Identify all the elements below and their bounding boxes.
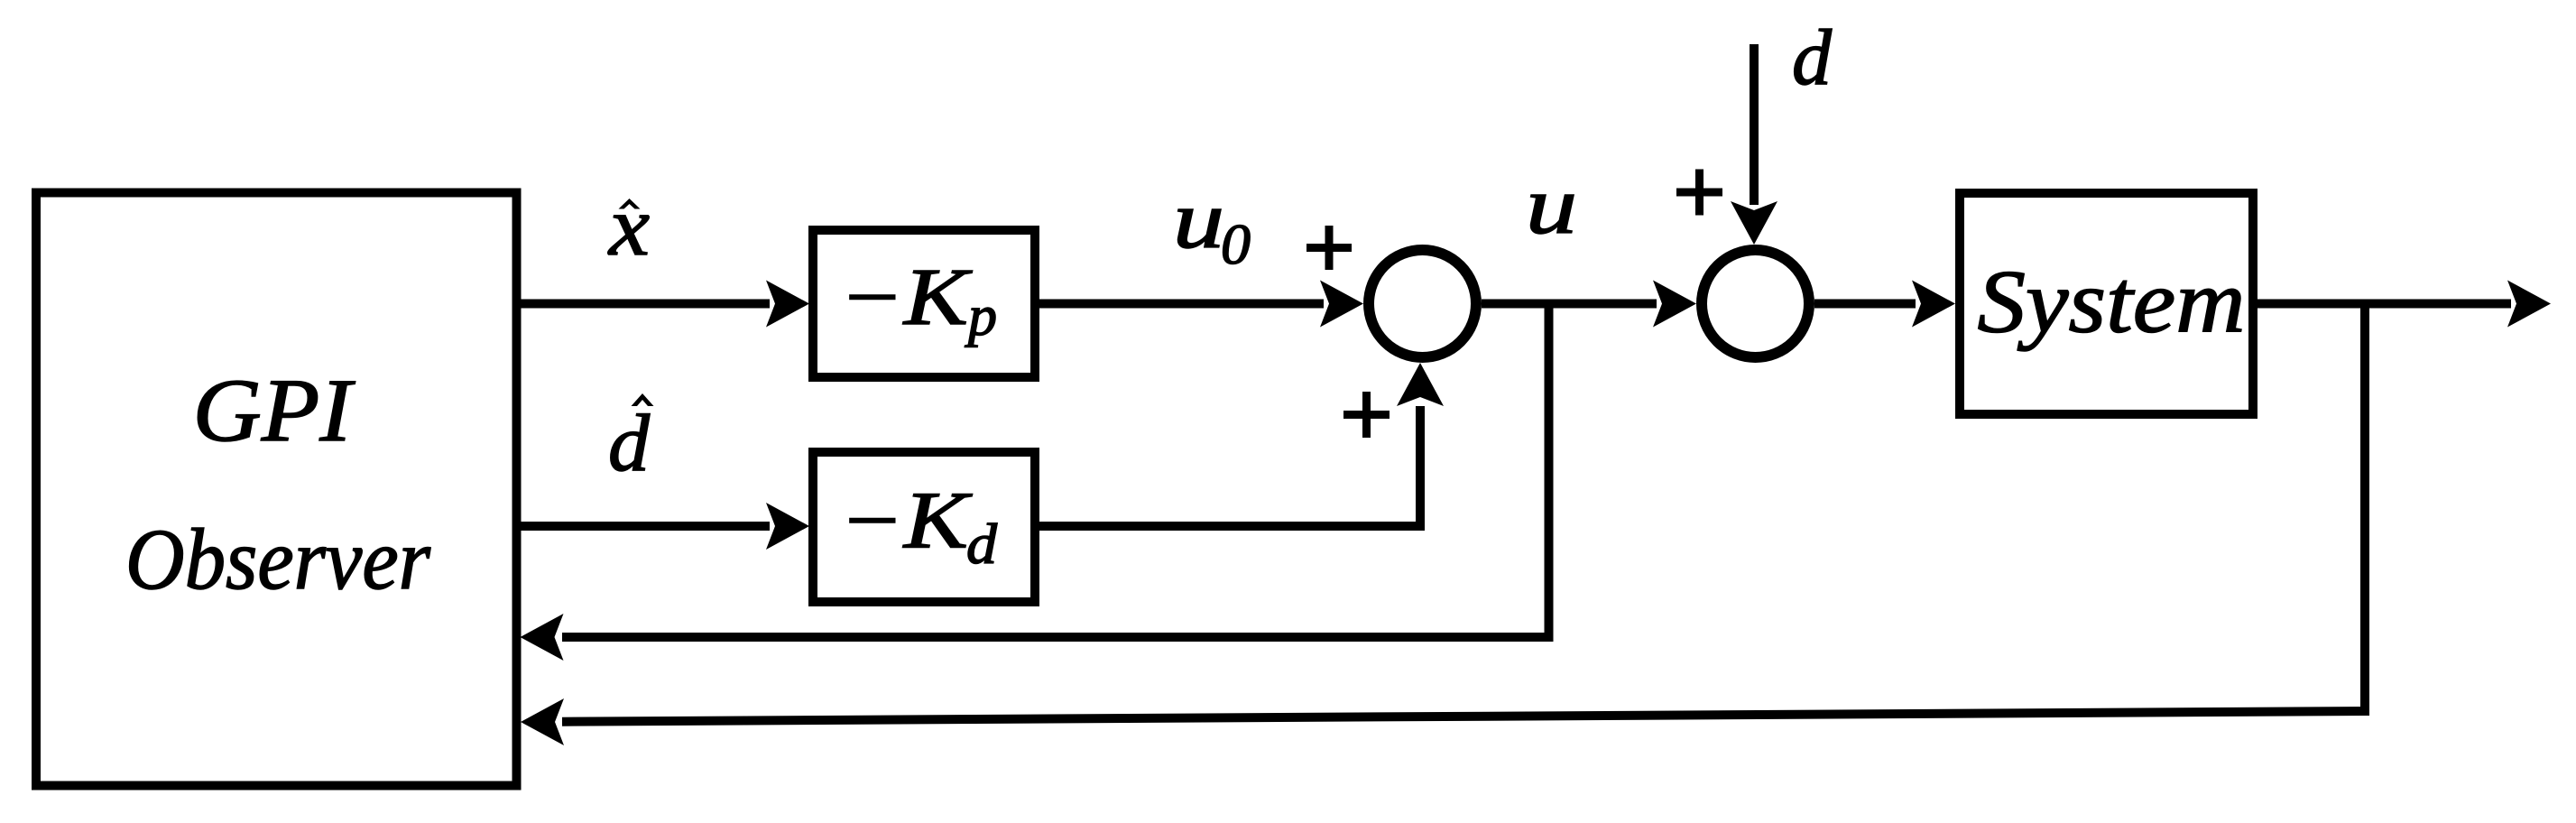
svg-text:p: p [965, 283, 997, 347]
wire feedback y to GPI (slightly slanted) [562, 711, 2369, 722]
svg-text:−K: −K [839, 476, 973, 566]
plus sign at summer 2 left input [1676, 170, 1722, 216]
svg-text:d: d [1792, 14, 1833, 102]
arrowhead d into summer 2 [1731, 201, 1777, 245]
wire xhat: GPI to -Kp [516, 300, 770, 309]
wire d disturbance input [1750, 44, 1759, 205]
summer 2 circle [1702, 250, 1809, 357]
svg-text:x: x [607, 180, 650, 273]
hat of dhat [632, 393, 654, 406]
block -Kp [813, 230, 1035, 377]
GPI Observer block [36, 193, 517, 786]
plus sign at summer 1 left input [1306, 226, 1352, 270]
svg-text:−K: −K [839, 253, 973, 342]
wire u0: -Kp to summer 1 [1035, 300, 1324, 309]
svg-text:u: u [1173, 174, 1224, 265]
arrowhead into summer 1 [1320, 281, 1363, 328]
hat of xhat [619, 199, 641, 209]
svg-text:d: d [966, 512, 998, 576]
node u tap: vertical drop for feedback [1545, 300, 1554, 643]
arrowhead into System [1912, 281, 1955, 328]
wire dhat: GPI to -Kd [516, 522, 770, 531]
wire summer 2 to System [1814, 300, 1916, 309]
block System [1960, 193, 2253, 414]
svg-text:Observer: Observer [125, 511, 431, 607]
svg-text:GPI: GPI [193, 360, 356, 460]
svg-text:System: System [1978, 252, 2246, 352]
block -Kd [813, 452, 1035, 602]
arrowhead feedback y into GPI [521, 698, 564, 745]
svg-text:0: 0 [1221, 212, 1251, 276]
wire -Kd output to summer 1 bottom [1035, 406, 1420, 526]
wire feedback u to GPI [562, 633, 1554, 642]
arrowhead into summer 2 [1653, 281, 1696, 328]
plus sign at summer 1 bottom input [1343, 392, 1390, 438]
wire System output [2253, 300, 2511, 309]
arrowhead feedback u into GPI [521, 614, 564, 661]
arrowhead up into summer 1 [1397, 363, 1444, 406]
svg-text:u: u [1526, 160, 1577, 251]
summer 1 circle [1369, 250, 1476, 357]
arrowhead into -Kp [766, 281, 809, 328]
svg-text:d: d [608, 399, 651, 488]
arrowhead into -Kd [766, 503, 809, 550]
node output tap: vertical drop for feedback [2360, 300, 2369, 717]
wire u: summer 1 to summer 2 [1482, 300, 1657, 309]
arrowhead output [2507, 281, 2551, 328]
